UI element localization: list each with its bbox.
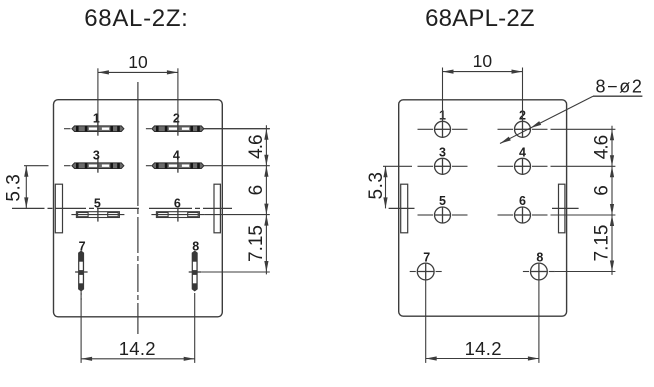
- dimension 10 arrow right: [167, 70, 178, 74]
- svg-text:7.15: 7.15: [246, 225, 267, 262]
- dimension 7.15 arrow top: [264, 215, 268, 226]
- dimension 14.2 arrow right (right): [528, 356, 539, 360]
- pin 6 hole (right diagram): [515, 207, 531, 223]
- dimension 14.2 arrow right: [184, 357, 195, 361]
- right side tab: [214, 184, 220, 233]
- svg-text:10: 10: [473, 51, 493, 71]
- dimension 5.3 arrow bottom (right): [383, 197, 387, 208]
- wire dash left of pin 3: [64, 165, 71, 167]
- dimension 10 arrow right (right): [512, 70, 523, 74]
- dimension 4.6 arrow bottom: [264, 155, 268, 166]
- dimension 14.2 line: [81, 358, 195, 360]
- pin 2 slot: [152, 126, 204, 132]
- wire dash left of pin 1: [64, 128, 71, 130]
- horizontal centerline right segment: [552, 207, 579, 209]
- dimension 6 arrow bottom (right): [610, 204, 614, 215]
- svg-text:4: 4: [173, 149, 180, 163]
- left side tab: [55, 184, 62, 233]
- dimension chain line: [265, 125, 267, 274]
- dimension 7.15 arrow bottom: [264, 261, 268, 272]
- leader line: [500, 96, 593, 143]
- svg-text:6: 6: [591, 185, 612, 196]
- wire dash left of pin 4: [146, 165, 152, 167]
- leader arrow at pin 2: [530, 121, 541, 128]
- dimension 10 line (right): [443, 71, 523, 73]
- wire dash left of pin 2: [146, 128, 152, 130]
- wire pin 4 to dimension (right): [551, 165, 616, 167]
- svg-text:7: 7: [79, 240, 86, 254]
- pin 1 centerline dashes: [418, 128, 434, 130]
- svg-text:4: 4: [519, 146, 526, 160]
- pin 8 slot: [192, 251, 197, 291]
- dimension 7.15 arrow bottom (right): [610, 261, 614, 272]
- svg-text:5: 5: [439, 194, 446, 208]
- svg-text:4.6: 4.6: [591, 135, 612, 159]
- pin 2 hole (right diagram): [515, 121, 531, 137]
- dimension 6 arrow bottom: [264, 204, 268, 215]
- pin 7 hole (right diagram): [417, 263, 434, 280]
- dimension 10 extension line left: [97, 68, 99, 125]
- svg-text:8−ø2: 8−ø2: [596, 77, 644, 97]
- pin 7 slot: [79, 251, 84, 291]
- vertical centerline: [137, 82, 139, 334]
- svg-text:14.2: 14.2: [119, 338, 156, 359]
- pin 3 centerline dashes: [418, 165, 434, 167]
- dimension 5.3 arrow top (right): [383, 166, 387, 177]
- dimension 6 arrow top: [264, 166, 268, 177]
- svg-text:7: 7: [423, 250, 430, 264]
- pin 5 hole (right diagram): [435, 207, 451, 223]
- leader arrow at end: [500, 137, 511, 144]
- wire pin 8 to dimension (right): [555, 271, 616, 273]
- svg-text:8: 8: [192, 240, 199, 254]
- pin 4 slot: [152, 163, 204, 169]
- dimension 14.2 arrow left: [81, 357, 92, 361]
- dimension 4.6 arrow bottom (right): [610, 155, 614, 166]
- left side tab (right diagram): [401, 184, 408, 233]
- pin 6 slot: [156, 212, 199, 218]
- relay body outline (68APL-2Z): [399, 100, 567, 316]
- pin 8 extension down: [538, 280, 540, 363]
- horizontal centerline: [12, 207, 232, 209]
- svg-text:6: 6: [519, 194, 526, 208]
- dimension 4.6 arrow top: [264, 129, 268, 140]
- pin 1 hole (right diagram): [435, 121, 451, 137]
- dimension 14.2 arrow left (right): [426, 356, 437, 360]
- svg-text:6: 6: [246, 185, 267, 196]
- wire pin 8 to dimension: [201, 271, 270, 273]
- dimension 14.2 extension right: [194, 293, 196, 363]
- dimension chain line (right): [611, 126, 613, 275]
- pin 3 hole (right diagram): [435, 158, 451, 174]
- pin 5 slot: [76, 212, 119, 218]
- svg-text:5: 5: [94, 197, 101, 211]
- svg-text:4.6: 4.6: [246, 135, 267, 159]
- dimension 7.15 arrow top (right): [610, 215, 614, 226]
- svg-text:68AL-2Z:: 68AL-2Z:: [84, 5, 188, 32]
- pin 6 centerline dashes: [498, 214, 514, 216]
- dimension 6 arrow top (right): [610, 166, 614, 177]
- wire pin 4 to dimension: [204, 165, 270, 167]
- pin 2 centerline dashes: [498, 128, 514, 130]
- svg-text:5.3: 5.3: [3, 174, 24, 202]
- pin 7 centerline below: [80, 291, 82, 300]
- wire 5.3 extension row 3-4: [24, 165, 49, 167]
- pin 4 hole (right diagram): [515, 158, 531, 174]
- svg-text:3: 3: [439, 146, 446, 160]
- pin 7 centerline dashes: [410, 271, 416, 273]
- right side tab (right diagram): [559, 184, 565, 233]
- dimension 5.3 arrow top: [24, 166, 28, 177]
- svg-text:1: 1: [93, 112, 100, 126]
- pin 3 slot: [72, 163, 124, 169]
- wire pin 2 to dimension: [204, 128, 270, 130]
- leader underline: [593, 95, 642, 97]
- svg-text:68APL-2Z: 68APL-2Z: [425, 5, 535, 32]
- pin 5 centerline dashes: [418, 214, 434, 216]
- svg-text:8: 8: [536, 250, 543, 264]
- svg-text:7.15: 7.15: [592, 225, 613, 262]
- svg-text:14.2: 14.2: [465, 338, 502, 359]
- dimension 14.2 line (right): [426, 358, 539, 360]
- svg-text:3: 3: [93, 149, 100, 163]
- dimension 5.3 line (right): [385, 166, 387, 208]
- wire 5.3 extension (right diagram): [383, 165, 412, 167]
- svg-text:5.3: 5.3: [366, 172, 387, 200]
- dimension extension row 1-2: [204, 128, 270, 130]
- relay body outline (68AL-2Z): [54, 100, 223, 317]
- dimension 10 extension line right: [177, 68, 179, 125]
- wire pin 2 to dimension (right): [551, 128, 616, 130]
- svg-text:6: 6: [174, 197, 181, 211]
- svg-text:10: 10: [128, 52, 148, 72]
- dimension 10 extension right (right): [522, 68, 524, 122]
- pin 4 centerline dashes: [498, 165, 514, 167]
- pin 7 extension down: [425, 280, 427, 363]
- dimension 4.6 arrow top (right): [610, 129, 614, 140]
- pin 1 slot: [72, 126, 124, 132]
- dimension 14.2 extension left: [80, 293, 82, 363]
- horizontal centerline left segment: [389, 207, 415, 209]
- dimension 10 extension left (right): [442, 68, 444, 122]
- wire pin 6 to dimension (right): [551, 214, 616, 216]
- dimension 10 arrow left: [98, 70, 109, 74]
- pin 8 centerline dashes: [523, 271, 529, 273]
- dimension 5.3 arrow bottom: [24, 197, 28, 208]
- dimension 5.3 line: [25, 166, 27, 209]
- dimension 10 line: [98, 71, 178, 73]
- pin 8 hole (right diagram): [531, 263, 548, 280]
- dimension 10 arrow left (right): [443, 70, 454, 74]
- wire pin 6 to dimension: [204, 214, 269, 216]
- svg-text:2: 2: [173, 112, 180, 126]
